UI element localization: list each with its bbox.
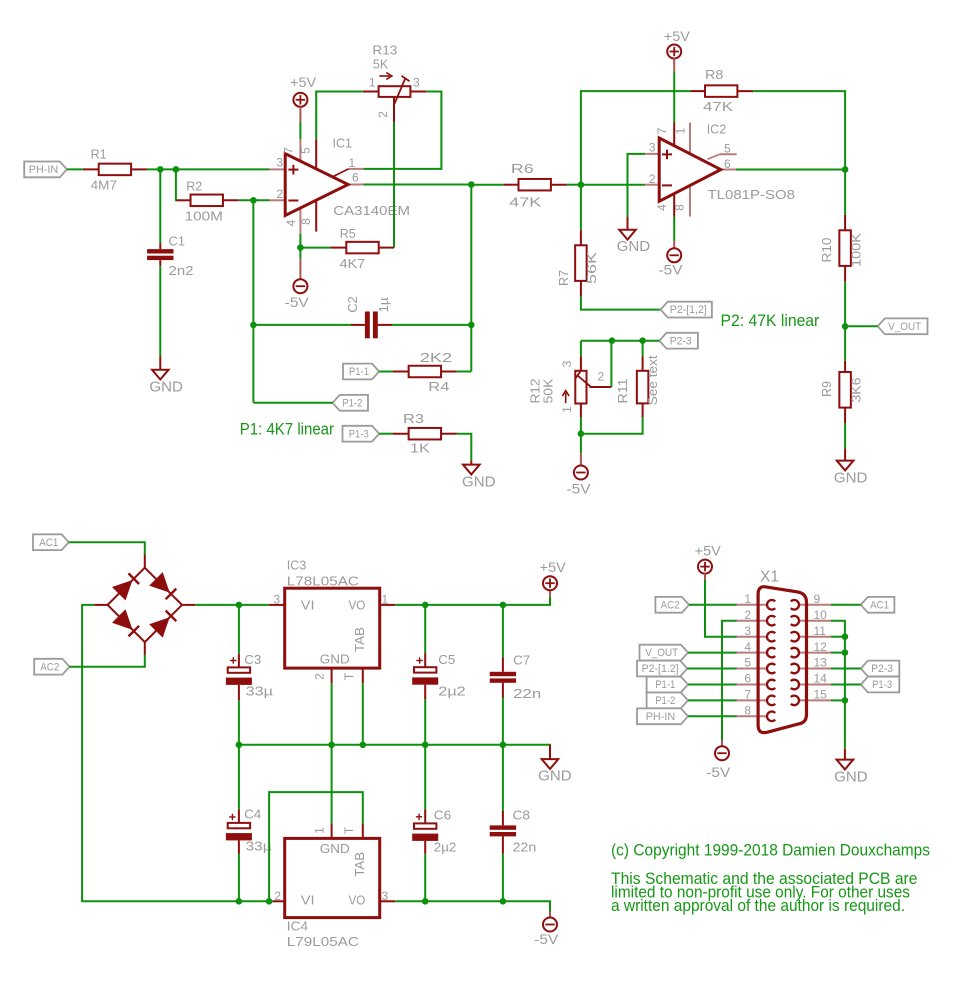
svg-text:-5V: -5V (567, 481, 592, 497)
svg-text:100M: 100M (185, 209, 223, 224)
svg-text:R3: R3 (403, 411, 424, 426)
svg-text:TL081P-SO8: TL081P-SO8 (708, 187, 796, 202)
wire R12 bottom (580, 417, 582, 453)
svg-text:R2: R2 (186, 179, 202, 194)
wire bridge minus rail (82, 605, 239, 901)
wire node to C1 (159, 169, 161, 243)
svg-text:3: 3 (744, 624, 751, 638)
junction (422, 898, 429, 905)
svg-text:CA3140EM: CA3140EM (333, 203, 410, 218)
svg-text:6: 6 (744, 672, 751, 686)
capacitor C3 (238, 605, 240, 654)
svg-text:+5V: +5V (695, 543, 722, 559)
svg-text:3: 3 (649, 141, 656, 155)
svg-text:PH-IN: PH-IN (29, 164, 59, 176)
connector X1 pins (737, 604, 767, 606)
net flag P2-3 (659, 333, 698, 349)
svg-text:2: 2 (598, 370, 605, 384)
svg-text:IC2: IC2 (707, 122, 727, 137)
svg-text:-5V: -5V (534, 931, 559, 947)
svg-text:2: 2 (376, 111, 390, 118)
svg-text:P2-[1.2]: P2-[1.2] (642, 663, 679, 675)
junction (422, 602, 429, 609)
wire mid GND rail (239, 745, 550, 757)
power +5V IC1 (293, 93, 307, 107)
svg-text:5: 5 (298, 147, 312, 154)
svg-text:R9: R9 (819, 381, 834, 397)
wire pin13 to P2-3 (831, 668, 861, 670)
wire R13 pin3 to IC1 pin1 (364, 92, 442, 169)
connector X1 contacts (767, 600, 775, 610)
svg-text:VO: VO (349, 598, 366, 613)
svg-text:R4: R4 (428, 379, 449, 394)
junction (157, 166, 164, 173)
ground GND R3 (470, 460, 472, 464)
svg-text:C4: C4 (244, 807, 261, 822)
svg-text:L78L05AC: L78L05AC (287, 573, 359, 588)
svg-text:2µ2: 2µ2 (434, 840, 457, 855)
resistor R9 (844, 326, 846, 361)
net flag AC1 (33, 534, 69, 550)
svg-text:2: 2 (744, 608, 751, 622)
svg-text:L79L05AC: L79L05AC (287, 934, 359, 949)
svg-text:GND: GND (617, 238, 651, 255)
junction (500, 602, 507, 609)
resistor R3 (379, 433, 393, 435)
svg-text:C1: C1 (169, 234, 186, 249)
svg-text:15: 15 (814, 688, 828, 702)
svg-text:2: 2 (649, 172, 656, 186)
svg-text:33µ: 33µ (246, 684, 274, 699)
wire pin14 to P1-3 (831, 684, 861, 686)
wire R6 node to IC2 pin2 (581, 184, 645, 186)
svg-text:AC2: AC2 (661, 599, 680, 611)
wire P1-2 to pin7 (688, 699, 737, 701)
power -5V IC2 (673, 217, 675, 242)
svg-text:+5V: +5V (290, 74, 317, 90)
svg-text:PH-IN: PH-IN (646, 711, 676, 723)
svg-text:P1-2: P1-2 (342, 397, 362, 409)
junction (578, 181, 585, 188)
junction (328, 742, 335, 749)
wire +5V to X1 pin3 (705, 580, 737, 637)
svg-text:P1-1: P1-1 (349, 366, 369, 378)
wire P2 to pin5 (687, 668, 737, 670)
svg-text:5: 5 (724, 142, 731, 156)
junction (468, 322, 475, 329)
junction (297, 244, 304, 251)
svg-text:GND: GND (834, 470, 868, 487)
svg-text:22n: 22n (513, 686, 541, 701)
junction (500, 742, 507, 749)
wire P1-2 (253, 402, 332, 404)
svg-text:14: 14 (814, 672, 828, 686)
wire PH-IN to R1 (67, 168, 83, 170)
wire pin9 to AC1 (831, 604, 861, 606)
junction (360, 742, 367, 749)
svg-text:22n: 22n (513, 840, 537, 855)
resistor R8 (690, 90, 705, 92)
svg-text:4M7: 4M7 (91, 178, 117, 193)
svg-text:8: 8 (673, 204, 687, 211)
junction (236, 898, 243, 905)
svg-text:VI: VI (301, 893, 315, 908)
svg-text:1: 1 (349, 156, 356, 170)
svg-text:6: 6 (724, 157, 731, 171)
svg-text:P2: 47K linear: P2: 47K linear (721, 311, 820, 330)
svg-text:2µ2: 2µ2 (438, 684, 465, 699)
svg-text:R11: R11 (615, 379, 630, 404)
svg-text:AC1: AC1 (870, 599, 889, 611)
wire IC1 out (364, 184, 472, 186)
svg-text:V_OUT: V_OUT (888, 321, 921, 333)
svg-text:3: 3 (276, 156, 283, 170)
svg-text:IC1: IC1 (333, 136, 353, 151)
wire IC4 TAB jog (269, 792, 363, 901)
svg-text:11: 11 (814, 624, 827, 638)
svg-text:3: 3 (382, 889, 389, 903)
capacitor C8 (502, 745, 504, 811)
resistor R10 (844, 170, 846, 215)
net flag AC2 X1 (655, 597, 689, 613)
svg-text:C2: C2 (345, 296, 360, 313)
power +5V IC2 (667, 45, 681, 59)
capacitor C4 (238, 745, 240, 810)
ground wire IC2 pin3 (628, 154, 646, 217)
wire IC4 pin1 up (331, 745, 333, 823)
svg-text:3: 3 (560, 360, 574, 367)
ground GND C1 (159, 357, 161, 370)
op-amp IC2 pins (645, 153, 659, 155)
svg-text:-5V: -5V (285, 294, 310, 310)
net flag P1-1 X1 (647, 677, 688, 693)
wire pin12 gnd (831, 652, 845, 654)
svg-text:P1: 4K7 linear: P1: 4K7 linear (240, 420, 334, 439)
svg-text:+5V: +5V (540, 559, 567, 575)
svg-text:AC1: AC1 (39, 537, 58, 549)
wire pin10 gnd (831, 621, 845, 749)
svg-text:IC4: IC4 (287, 919, 308, 934)
svg-text:C5: C5 (438, 652, 455, 667)
power -5V IC1 (299, 248, 301, 259)
svg-text:47K: 47K (509, 195, 541, 210)
net flag P1-3 X1 (861, 677, 900, 693)
bridge rectifier (108, 568, 182, 642)
junction (250, 197, 257, 204)
wire R12 wiper up (610, 341, 612, 387)
wire P2-3 row (581, 340, 660, 342)
svg-text:2n2: 2n2 (169, 263, 194, 278)
wire pin4 to R5 node (299, 234, 301, 248)
net flag AC2 (34, 659, 69, 675)
wire P1-1 to pin6 (688, 684, 737, 686)
svg-text:2: 2 (274, 889, 281, 903)
wire IC3 pin2 down (331, 683, 333, 745)
wire -5V to X1 pin2 (722, 621, 737, 740)
wire P2-3 down to R12 (580, 341, 582, 357)
ground GND PSU (549, 745, 551, 759)
svg-text:P1-1: P1-1 (655, 679, 675, 691)
wire pin15 gnd (831, 699, 845, 701)
wire out to C2 node (470, 185, 472, 325)
svg-text:GND: GND (538, 768, 572, 785)
wire R2 to IC1 pin2 (239, 199, 270, 201)
power -5V PSU (549, 912, 551, 919)
svg-text:1K: 1K (410, 441, 430, 456)
svg-text:1: 1 (560, 406, 574, 413)
svg-text:GND: GND (320, 651, 350, 666)
power -5V R12 (580, 453, 582, 466)
svg-text:7: 7 (281, 147, 295, 154)
ground GND X1 (844, 749, 846, 760)
wire bridge plus to IC3 (195, 604, 269, 606)
svg-text:3: 3 (413, 76, 420, 90)
wire R2 node down (252, 200, 254, 402)
wire C1 to GND (159, 266, 161, 356)
capacitor C6 (424, 745, 426, 810)
svg-text:1: 1 (313, 827, 327, 834)
svg-text:VO: VO (349, 893, 366, 908)
bridge diode D4 (149, 617, 170, 638)
svg-text:AC2: AC2 (40, 661, 59, 673)
junction (173, 166, 180, 173)
svg-text:See text: See text (645, 355, 660, 405)
svg-text:R5: R5 (340, 226, 356, 241)
wire neg rail to IC4 (239, 900, 273, 902)
svg-text:4: 4 (744, 640, 751, 654)
voltage regulator IC4 (273, 900, 285, 902)
junction (578, 430, 585, 437)
svg-text:3: 3 (273, 593, 280, 607)
junction (266, 898, 273, 905)
svg-text:+5V: +5V (664, 28, 691, 44)
trimmer R13 (363, 91, 379, 93)
svg-text:8: 8 (299, 218, 313, 225)
svg-text:R10: R10 (819, 238, 834, 263)
wire +5V to pin7 (299, 122, 301, 139)
svg-text:P2-3: P2-3 (871, 663, 893, 675)
bridge diode D1 (112, 580, 133, 601)
wire V_OUT to pin4 (688, 652, 737, 654)
op-amp IC1 (285, 154, 348, 216)
resistor R7 (580, 185, 582, 231)
svg-text:4: 4 (284, 219, 298, 226)
svg-text:2: 2 (276, 187, 283, 201)
svg-text:P1-3: P1-3 (349, 428, 369, 440)
svg-text:a written approval of the auth: a written approval of the author is requ… (611, 896, 905, 915)
power -5V X1 (721, 740, 723, 746)
resistor R5 (300, 247, 330, 249)
svg-text:1: 1 (369, 76, 376, 90)
svg-text:P2-[1,2]: P2-[1,2] (670, 304, 707, 316)
wire R7 to P2-[1,2] (581, 297, 661, 310)
bridge diode D2 (149, 572, 170, 593)
wire R11 bottom (581, 417, 643, 433)
bridge diode D3 (112, 609, 133, 630)
wire pin11 gnd (831, 636, 845, 638)
net flag P1-3 (343, 426, 380, 442)
svg-text:C3: C3 (244, 652, 261, 667)
voltage regulator IC3 (269, 604, 285, 606)
wire AC1 to bridge (69, 542, 145, 554)
junction (236, 602, 243, 609)
junction (500, 898, 507, 905)
net flag V_OUT (878, 318, 928, 334)
svg-text:V_OUT: V_OUT (645, 647, 678, 659)
net flag PH-IN (24, 162, 67, 178)
net flag P2-[1,2] (661, 302, 712, 318)
wire R8 to out node (753, 91, 845, 169)
wire IC2 out (736, 169, 845, 171)
junction (236, 742, 243, 749)
svg-text:(c) Copyright 1999-2018 Damien: (c) Copyright 1999-2018 Damien Douxchamp… (611, 841, 930, 860)
op-amp IC1 pins (270, 168, 286, 170)
svg-text:GND: GND (834, 769, 868, 786)
junction (842, 697, 849, 704)
net flag P2-[1.2] X1 (637, 661, 687, 677)
svg-text:X1: X1 (760, 569, 779, 586)
svg-text:-5V: -5V (659, 262, 684, 278)
junction (842, 649, 849, 656)
junction (609, 337, 616, 344)
svg-text:GND: GND (462, 474, 496, 491)
svg-text:C8: C8 (513, 808, 531, 823)
resistor R6 (471, 184, 503, 186)
net flag V_OUT X1 (640, 645, 689, 661)
svg-text:4K7: 4K7 (340, 256, 365, 271)
svg-text:10: 10 (814, 608, 828, 622)
svg-text:GND: GND (149, 379, 183, 396)
svg-text:3K6: 3K6 (848, 378, 863, 403)
wire IC3 VO rail (395, 597, 550, 605)
svg-text:100K: 100K (848, 233, 863, 267)
svg-text:7: 7 (744, 688, 751, 702)
wire IC4 VO rail (395, 901, 550, 911)
wire AC2 to pin1 (689, 604, 737, 606)
wire R13 wiper to R5 (393, 122, 395, 248)
svg-text:47K: 47K (703, 99, 733, 114)
svg-text:P1-3: P1-3 (872, 679, 892, 691)
capacitor C1 (159, 243, 161, 249)
resistor R1 (83, 168, 99, 170)
op-amp IC2 (659, 138, 721, 201)
svg-text:1µ: 1µ (376, 297, 391, 313)
svg-text:6: 6 (352, 171, 359, 185)
net flag P2-3 X1 (861, 661, 900, 677)
junction (250, 322, 257, 329)
svg-text:4: 4 (655, 204, 669, 211)
svg-text:C6: C6 (434, 808, 452, 823)
svg-text:T: T (342, 826, 356, 834)
wire R3 to GND (457, 434, 471, 461)
wire PH-IN to pin8 (688, 715, 737, 717)
wire to V_OUT (845, 325, 878, 327)
svg-text:VI: VI (301, 598, 315, 613)
wire junction to R2 (176, 169, 178, 200)
wire C2 node to R4 (470, 325, 472, 372)
svg-text:2: 2 (313, 673, 327, 680)
resistor R11 (642, 341, 644, 357)
svg-text:9: 9 (814, 592, 821, 606)
resistor R4 (379, 371, 393, 373)
junction (468, 181, 475, 188)
junction (842, 323, 849, 330)
svg-text:TAB: TAB (352, 627, 367, 652)
junction (842, 166, 849, 173)
svg-text:56K: 56K (584, 252, 599, 284)
svg-text:1: 1 (382, 593, 389, 607)
svg-text:P2-3: P2-3 (670, 335, 692, 347)
svg-text:8: 8 (744, 704, 751, 718)
svg-text:1: 1 (674, 127, 688, 134)
svg-text:R8: R8 (705, 67, 723, 82)
svg-text:GND: GND (320, 841, 350, 856)
wire AC2 to bridge (70, 655, 145, 667)
trimmer R12 (580, 356, 582, 370)
svg-text:C7: C7 (513, 653, 530, 668)
resistor R2 (177, 199, 191, 201)
wire R1 to IC1 pin3 (147, 168, 270, 170)
connector X1 body (758, 587, 806, 733)
svg-text:-5V: -5V (706, 764, 731, 780)
capacitor C2 (253, 324, 351, 326)
wire feedback up (581, 91, 691, 185)
wire IC3 pinT down (362, 683, 364, 745)
junction (422, 742, 429, 749)
net flag P1-1 (343, 364, 379, 380)
ground GND R9 (844, 448, 846, 460)
svg-text:R6: R6 (511, 161, 534, 176)
svg-text:R13: R13 (372, 43, 397, 58)
net flag P1-2 (333, 395, 368, 411)
power +5V X1 (698, 560, 712, 574)
net flag PH-IN X1 (637, 708, 688, 724)
net flag P1-2 X1 (647, 693, 688, 709)
capacitor C5 (424, 605, 426, 654)
svg-text:T: T (342, 672, 356, 680)
svg-text:R7: R7 (556, 270, 571, 286)
svg-text:IC3: IC3 (287, 558, 307, 573)
svg-text:5K: 5K (373, 57, 389, 72)
svg-text:5: 5 (744, 656, 751, 670)
svg-text:12: 12 (814, 640, 828, 654)
svg-text:13: 13 (814, 656, 828, 670)
svg-text:2K2: 2K2 (420, 350, 452, 365)
svg-text:1: 1 (744, 592, 751, 606)
junction (842, 633, 849, 640)
svg-text:TAB: TAB (352, 852, 367, 877)
svg-text:7: 7 (655, 127, 669, 134)
ground GND IC2 (627, 217, 629, 230)
svg-text:P1-2: P1-2 (655, 695, 675, 707)
svg-text:R1: R1 (91, 147, 107, 162)
wire R13 pin1 to IC1 pin5 (316, 92, 363, 140)
power +5V PSU (549, 590, 551, 597)
junction (639, 337, 646, 344)
svg-text:50K: 50K (541, 378, 556, 403)
net flag AC1 X1 (861, 597, 895, 613)
capacitor C7 (502, 605, 504, 658)
wire +5V to IC2 pin7 (673, 72, 675, 123)
